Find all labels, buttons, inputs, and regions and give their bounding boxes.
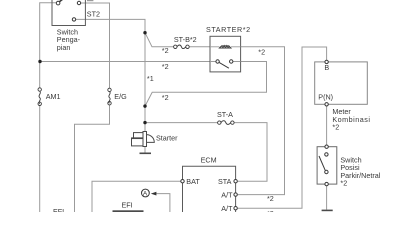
svg-text:STARTER*2: STARTER*2 — [206, 25, 251, 34]
ammeter arrowhead — [151, 192, 157, 196]
fuse AM1 — [38, 88, 41, 106]
node AM1 junction — [38, 60, 41, 63]
svg-text:B: B — [324, 63, 329, 72]
relay switch contacts — [216, 60, 233, 68]
svg-text:*2: *2 — [162, 93, 169, 102]
relay EFI box top edge — [113, 210, 144, 212]
wire diagonal to ST-B fuse — [145, 33, 174, 47]
svg-text:ST-B*2: ST-B*2 — [174, 35, 197, 44]
svg-text:ECM: ECM — [201, 156, 217, 165]
svg-text:AM1: AM1 — [46, 92, 61, 101]
svg-text:*2: *2 — [162, 46, 169, 55]
svg-text:*2: *2 — [162, 62, 169, 71]
node starter feed — [143, 104, 146, 107]
fuse E/G — [108, 88, 111, 105]
node ST-A branch — [143, 121, 146, 124]
svg-text:ST-A: ST-A — [217, 110, 233, 119]
svg-text:pian: pian — [57, 43, 71, 52]
wire E/G fuse down to EFI — [75, 105, 110, 212]
relay switch contact leads — [210, 61, 241, 63]
fuse ST-B — [174, 45, 190, 49]
svg-text:*2: *2 — [267, 209, 274, 212]
pin STA — [234, 180, 237, 183]
svg-text:P(N): P(N) — [318, 93, 333, 102]
ground starter — [140, 152, 152, 154]
fuse ST-A — [218, 121, 234, 125]
svg-text:BAT: BAT — [186, 177, 200, 186]
switch park/neutral box — [317, 147, 337, 184]
wire starter to ground — [144, 147, 146, 153]
wire ammeter arrow line — [156, 194, 170, 212]
switch ignition contact arm — [56, 0, 80, 21]
svg-text:A/T: A/T — [221, 190, 233, 199]
pin A/T 1 — [234, 193, 237, 196]
wire AM1 fuse down — [39, 106, 41, 213]
svg-text:*2: *2 — [267, 194, 274, 203]
svg-text:ST2: ST2 — [87, 10, 100, 19]
svg-text:*2: *2 — [332, 123, 339, 132]
svg-text:A/T: A/T — [221, 204, 233, 212]
svg-text:A: A — [143, 191, 148, 198]
pin BAT — [181, 180, 184, 183]
switch park/neutral arm — [319, 156, 325, 170]
switch park/neutral pins — [325, 145, 329, 186]
svg-text:STA: STA — [218, 177, 232, 186]
ground park/neutral — [322, 209, 333, 211]
wire ACC contact to E/G fuse — [81, 3, 110, 88]
svg-text:EFI: EFI — [122, 201, 133, 210]
wire ST-B fuse to relay — [189, 46, 210, 48]
relay STARTER*2 box — [210, 36, 241, 72]
wire EFI to ECM BAT — [92, 181, 181, 212]
wire ECM A/T pin2 to meter B — [238, 47, 327, 208]
wire relay coil out to ECM A/T pin1 — [238, 47, 285, 195]
relay coil — [210, 46, 241, 48]
svg-text:Starter: Starter — [156, 134, 178, 143]
label cut text top — [87, 0, 93, 1]
pin B — [325, 60, 328, 63]
ammeter probe A — [142, 189, 150, 197]
svg-text:*2: *2 — [340, 179, 347, 188]
wire AM1 node to relay switch — [40, 61, 210, 63]
wire AM1 branch from ignition switch — [40, 3, 57, 88]
meter kombinasi box — [315, 62, 368, 104]
pin A/T 2 — [234, 207, 237, 210]
wire park/neutral switch to ground — [326, 184, 328, 210]
svg-text:*2: *2 — [258, 47, 265, 56]
wire relay switch out to starter node — [145, 62, 267, 107]
starter motor symbol — [132, 132, 155, 147]
svg-text:E/G: E/G — [114, 92, 127, 101]
switch ignition SW box — [52, 0, 85, 26]
wire meter P(N) to park/neutral switch — [326, 106, 328, 147]
wire ST2 to junction — [76, 19, 145, 131]
wire ST-A line to ECM STA — [145, 122, 218, 124]
ECM box — [183, 166, 236, 212]
pin P(N) — [325, 103, 328, 106]
svg-text:*1: *1 — [147, 74, 154, 83]
svg-text:EFI: EFI — [53, 207, 64, 212]
node ST-B branch — [143, 31, 146, 34]
